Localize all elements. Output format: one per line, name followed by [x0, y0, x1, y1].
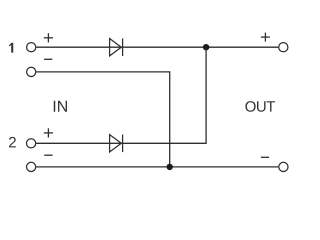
wire: input 2+ through D2 to rise point: [36, 142, 206, 144]
wire: input 1+ through D1 to OUT+ (top rail): [36, 46, 278, 48]
OUT label: [245, 101, 275, 112]
IN label: [54, 101, 67, 112]
terminal circle 1+: [27, 43, 36, 52]
wire: input 1- horizontal run: [36, 71, 170, 73]
plus sign input 2: [44, 128, 53, 137]
node junction top (dot): [203, 44, 209, 50]
wire: input 1- vertical drop to bottom rail: [169, 71, 171, 167]
wire: bottom rail input 2- to OUT-: [36, 166, 278, 168]
node junction bottom (dot): [167, 164, 173, 170]
terminal label 1: [9, 43, 13, 53]
wire: D2 output vertical rise to top junction: [205, 47, 207, 144]
diode D2: [110, 135, 123, 153]
plus sign output: [261, 33, 270, 42]
minus sign input 1: [44, 58, 52, 60]
terminal circle OUT-: [279, 162, 288, 171]
terminal label 2: [9, 137, 16, 147]
terminal circle 1-: [27, 67, 36, 76]
minus sign output: [261, 156, 269, 158]
terminal circle 2-: [27, 162, 36, 171]
terminal circle 2+: [27, 139, 36, 148]
terminal circle OUT+: [279, 43, 288, 52]
minus sign input 2: [44, 154, 52, 156]
plus sign input 1: [44, 33, 53, 42]
diode D1: [110, 38, 123, 56]
